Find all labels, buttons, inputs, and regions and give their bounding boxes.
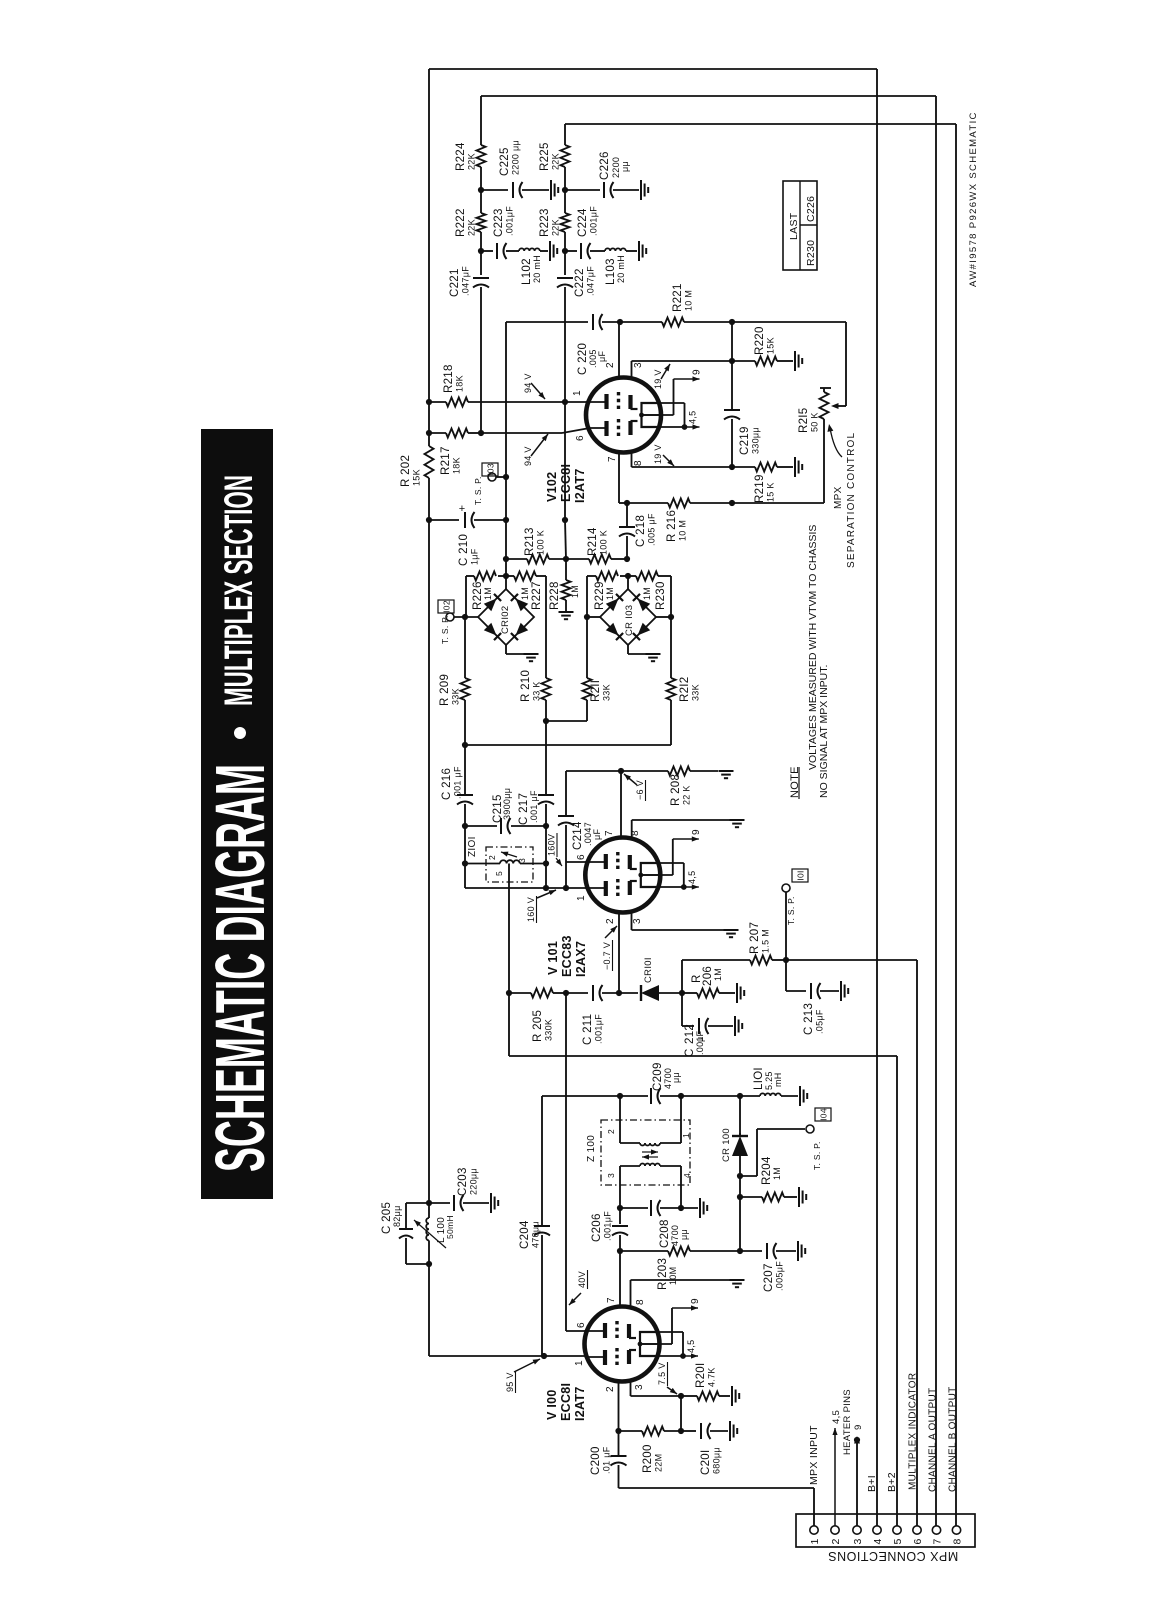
svg-text:NO SIGNAL AT MPX INPUT.: NO SIGNAL AT MPX INPUT. xyxy=(818,665,830,798)
resistor R210 33K xyxy=(545,617,547,678)
wire channel-B bus top xyxy=(565,123,956,125)
transformer Z100 (dash-dot box) xyxy=(601,1120,690,1185)
capacitor C215 3900uu xyxy=(500,818,502,834)
node C211 right / pin2 xyxy=(616,990,622,996)
coil L100 50mH variable xyxy=(428,1203,430,1218)
svg-text:μF: μF xyxy=(597,351,607,362)
svg-text:C20I: C20I xyxy=(700,1450,712,1476)
svg-text:8: 8 xyxy=(635,1299,646,1305)
svg-text:.001 μF: .001 μF xyxy=(453,766,463,799)
svg-text:C204: C204 xyxy=(519,1220,531,1249)
resistor R224 22K xyxy=(480,96,482,145)
svg-text:V I00: V I00 xyxy=(545,1389,559,1420)
node pin1 line / C222 bus xyxy=(562,399,568,405)
test point T.S.P. 101 xyxy=(785,892,787,960)
node junction R223/C222/C224 xyxy=(562,248,568,254)
wire pin2 heater 4,5 xyxy=(834,1428,836,1526)
svg-text:mH: mH xyxy=(773,1072,783,1087)
connector pin 5 xyxy=(893,1526,901,1534)
title bar SCHEMATIC DIAGRAM - MULTIPLEX SECTION xyxy=(201,429,273,1199)
svg-text:V 101: V 101 xyxy=(546,941,560,975)
capacitor C204 470uu xyxy=(541,1096,543,1225)
svg-text:22 K: 22 K xyxy=(682,785,692,805)
svg-text:T. S. P.: T. S. P. xyxy=(786,896,796,925)
capacitor C218 .005uF xyxy=(626,503,628,527)
svg-text:1μF: 1μF xyxy=(470,548,480,565)
node R203 right / C207 xyxy=(737,1248,743,1254)
svg-text:R 209: R 209 xyxy=(439,674,451,706)
svg-text:330K: 330K xyxy=(544,1019,554,1041)
tube V102 ECC81 12AT7 xyxy=(586,378,661,453)
capacitor C207 .005uF xyxy=(740,1250,762,1252)
resistor R213 100K xyxy=(527,555,549,564)
diode CR100 xyxy=(739,1133,741,1136)
svg-text:.005μF: .005μF xyxy=(775,1261,785,1291)
svg-text:R 216: R 216 xyxy=(666,510,678,542)
svg-text:3: 3 xyxy=(634,1384,645,1390)
svg-text:.001 μF: .001 μF xyxy=(529,790,539,823)
svg-text:I0I: I0I xyxy=(796,870,806,880)
svg-text:1M: 1M xyxy=(570,585,580,598)
svg-text:33 K: 33 K xyxy=(532,681,542,701)
svg-text:C206: C206 xyxy=(591,1213,603,1242)
svg-text:50mH: 50mH xyxy=(445,1215,455,1239)
resistor R217 18K xyxy=(446,429,468,438)
svg-text:ZIOI: ZIOI xyxy=(467,836,478,857)
svg-text:15K: 15K xyxy=(766,337,776,354)
svg-text:C 216: C 216 xyxy=(441,768,453,800)
node R219 line xyxy=(729,464,735,470)
svg-text:B+I: B+I xyxy=(866,1475,878,1492)
resistor R214 100K xyxy=(589,555,611,564)
node R214 right / C218 bottom xyxy=(624,556,630,562)
wire left bus vertical xyxy=(428,69,430,402)
svg-text:LAST: LAST xyxy=(788,212,800,240)
svg-text:CHANNEL A OUTPUT: CHANNEL A OUTPUT xyxy=(928,1388,939,1492)
svg-text:10 M: 10 M xyxy=(684,290,694,311)
wire R216 line to R215 bottom xyxy=(732,502,824,504)
node C210 line left xyxy=(426,517,432,523)
svg-text:5: 5 xyxy=(892,1539,904,1545)
node bridge CR103 left tap xyxy=(584,614,590,620)
svg-text:C223: C223 xyxy=(493,208,505,237)
svg-text:7: 7 xyxy=(606,1297,617,1303)
svg-text:MULTIPLEX INDICATOR: MULTIPLEX INDICATOR xyxy=(908,1373,919,1490)
svg-text:CRI02: CRI02 xyxy=(500,606,511,634)
test point T.S.P. 102 xyxy=(446,613,454,621)
node bridge CR103 top xyxy=(625,573,631,579)
capacitor C206 .001uF xyxy=(619,1208,621,1224)
svg-text:33K: 33K xyxy=(691,684,701,701)
wire input top link xyxy=(406,1202,429,1204)
svg-text:C200: C200 xyxy=(590,1446,602,1475)
resistor R201 4.7K xyxy=(681,1395,697,1397)
svg-text:R 205: R 205 xyxy=(532,1010,544,1042)
svg-text:I02: I02 xyxy=(442,600,452,613)
svg-text:1.5 M: 1.5 M xyxy=(761,929,771,953)
node 95V point xyxy=(541,1353,547,1359)
svg-text:9: 9 xyxy=(853,1424,864,1430)
capacitor C221 .047uF xyxy=(480,251,482,275)
svg-text:R20I: R20I xyxy=(695,1363,707,1389)
ground bridge CR103 bottom xyxy=(627,645,629,654)
tube V100 ECC81 12AT7 xyxy=(585,1307,660,1382)
connector pin 4 xyxy=(873,1526,881,1534)
svg-text:.047μF: .047μF xyxy=(461,266,471,296)
wire cathode node down xyxy=(680,1396,682,1431)
svg-text:1: 1 xyxy=(809,1539,821,1545)
capacitor C217 .001uF xyxy=(545,721,547,794)
svg-text:SEPARATION CONTROL: SEPARATION CONTROL xyxy=(846,432,857,568)
coil L103 20mH xyxy=(590,250,605,252)
svg-text:CHANNEL B OUTPUT: CHANNEL B OUTPUT xyxy=(948,1386,959,1492)
node C217 bottom xyxy=(543,823,549,829)
svg-text:μμ: μμ xyxy=(679,1229,689,1240)
capacitor C200 .01uF xyxy=(618,1431,620,1455)
resistor R212 33K xyxy=(670,617,672,678)
svg-text:7: 7 xyxy=(604,830,615,836)
capacitor C205 82uu xyxy=(405,1203,407,1228)
wire plate line to V102 pin 1 xyxy=(429,401,446,403)
bridge rectifier CR102 xyxy=(478,589,534,645)
svg-text:B+2: B+2 xyxy=(886,1472,898,1492)
node bridge CR102 top xyxy=(503,573,509,579)
connector pin 1 xyxy=(810,1526,818,1534)
svg-text:50 K: 50 K xyxy=(810,412,820,432)
svg-text:R 210: R 210 xyxy=(520,670,532,702)
wire C214 feed xyxy=(565,771,567,815)
svg-text:4,5: 4,5 xyxy=(686,1340,696,1353)
svg-text:5: 5 xyxy=(494,871,504,876)
resistor R204 1M xyxy=(740,1196,762,1198)
svg-text:7.5 V: 7.5 V xyxy=(657,1362,667,1385)
resistor R229 1M xyxy=(620,575,628,577)
svg-text:R224: R224 xyxy=(455,142,467,171)
svg-text:.01 μF: .01 μF xyxy=(602,1446,612,1474)
resistor R203 10M xyxy=(668,1247,690,1256)
svg-text:μμ: μμ xyxy=(671,1072,681,1083)
svg-text:1M: 1M xyxy=(642,587,652,600)
capacitor C219 330uu xyxy=(731,322,733,361)
svg-text:C 213: C 213 xyxy=(803,1003,815,1035)
wire channel-A bus top xyxy=(481,95,936,97)
svg-text:2: 2 xyxy=(606,1129,616,1134)
node C209 left xyxy=(617,1093,623,1099)
svg-text:100 K: 100 K xyxy=(536,530,546,555)
svg-text:I2AT7: I2AT7 xyxy=(573,468,587,503)
svg-text:1M: 1M xyxy=(713,968,723,981)
svg-text:220μμ: 220μμ xyxy=(469,1168,479,1195)
svg-text:1: 1 xyxy=(576,895,587,901)
wire V100 pin 2 down xyxy=(618,1382,620,1432)
connector pin 3 xyxy=(853,1526,861,1534)
table LAST R230 C226 xyxy=(783,181,817,270)
svg-text:3: 3 xyxy=(632,918,643,924)
node R205/C211/grid-line junction xyxy=(563,990,569,996)
wire R203 line xyxy=(620,1250,668,1252)
svg-text:CR 100: CR 100 xyxy=(721,1128,732,1162)
wire V102 pin 2 grid xyxy=(618,322,620,378)
svg-text:C203: C203 xyxy=(457,1167,469,1196)
capacitor C225 2200uuF xyxy=(481,189,508,191)
svg-text:8: 8 xyxy=(633,460,644,466)
resistor R206 1M xyxy=(682,992,697,994)
svg-text:.001μF: .001μF xyxy=(594,1014,604,1044)
wire C220 feed vertical xyxy=(505,322,507,576)
capacitor C213 .05uF xyxy=(785,960,787,991)
svg-text:C225: C225 xyxy=(499,147,511,176)
node C216 bottom xyxy=(462,823,468,829)
svg-text:9: 9 xyxy=(690,1298,701,1304)
svg-text:18K: 18K xyxy=(452,457,462,474)
node C208 right / ground xyxy=(678,1205,684,1211)
node Z101 pin2 / C216 chain xyxy=(462,860,468,866)
svg-text:R227: R227 xyxy=(531,581,543,610)
wire CR100 branch xyxy=(739,1096,741,1133)
node R216 right xyxy=(729,500,735,506)
wire V102 pin 8 cathode bottom to R219 line xyxy=(631,451,633,467)
svg-text:15K: 15K xyxy=(412,469,422,486)
node R209 bottom xyxy=(462,742,468,748)
wire V102 pin 7 to R216 line xyxy=(618,451,620,503)
wire B+2 line from R205 node xyxy=(508,993,510,1056)
resistor R225 22K xyxy=(564,124,566,145)
wire V101 pin 8 cathode top to ground xyxy=(631,820,633,838)
svg-text:C 218: C 218 xyxy=(635,515,647,547)
svg-text:6: 6 xyxy=(576,854,587,860)
svg-text:160 V: 160 V xyxy=(526,897,536,922)
node C217 line / plate line xyxy=(543,885,549,891)
resistor R221 10M xyxy=(620,321,662,323)
ground bridge CR102 bottom xyxy=(505,645,507,654)
svg-text:ECC83: ECC83 xyxy=(560,935,574,977)
node R206 junction xyxy=(679,990,685,996)
svg-text:C226: C226 xyxy=(805,196,817,222)
resistor R220 15K xyxy=(732,360,755,362)
wire V100 pin 8 cathode top to ground xyxy=(630,1280,632,1307)
wire C222-bus to R228 xyxy=(564,402,566,520)
wire channel-B bus right vertical to pin 8 xyxy=(955,124,957,1526)
node TSP103 tap xyxy=(503,474,509,480)
wire R204 node down to C207 line xyxy=(739,1197,741,1251)
svg-text:+: + xyxy=(459,503,465,515)
Z100 secondary winding xyxy=(640,1164,660,1167)
svg-text:82μμ: 82μμ xyxy=(392,1205,402,1227)
svg-text:2: 2 xyxy=(487,855,497,860)
svg-text:I04: I04 xyxy=(819,1108,829,1121)
resistor R219 15K xyxy=(732,466,755,468)
node R217 right / C221 feed xyxy=(478,430,484,436)
svg-text:4: 4 xyxy=(872,1539,884,1545)
svg-text:T. S. P.: T. S. P. xyxy=(473,476,483,505)
resistor R222 22K xyxy=(477,213,486,232)
resistor R223 22K xyxy=(561,213,570,232)
svg-text:HEATER PINS: HEATER PINS xyxy=(842,1389,853,1455)
capacitor C211 .001uF xyxy=(592,985,594,1001)
node L101 tap xyxy=(737,1093,743,1099)
svg-text:C222: C222 xyxy=(574,268,586,297)
node R221 right xyxy=(729,319,735,325)
svg-text:.047μF: .047μF xyxy=(586,266,596,296)
connector pin 2 xyxy=(831,1526,839,1534)
svg-text:15 K: 15 K xyxy=(766,482,776,502)
svg-text:.001μF: .001μF xyxy=(603,1211,613,1241)
svg-text:ECC8I: ECC8I xyxy=(559,1383,573,1421)
svg-text:C219: C219 xyxy=(739,426,751,455)
svg-text:18K: 18K xyxy=(455,375,465,392)
svg-text:.005 μF: .005 μF xyxy=(647,513,657,546)
svg-text:MPX INPUT: MPX INPUT xyxy=(808,1425,820,1485)
svg-text:1M: 1M xyxy=(483,587,493,600)
resistor R216 10M xyxy=(627,502,668,504)
svg-text:I2AX7: I2AX7 xyxy=(574,941,588,977)
svg-text:R2II: R2II xyxy=(590,680,602,702)
resistor R208 22K xyxy=(668,767,690,776)
svg-text:R2I2: R2I2 xyxy=(679,677,691,703)
svg-text:I2AT7: I2AT7 xyxy=(573,1386,587,1421)
svg-text:22K: 22K xyxy=(467,219,477,236)
svg-text:Z 100: Z 100 xyxy=(586,1135,597,1162)
wire R221 to R215 wiper feed xyxy=(732,321,846,323)
node C209 right xyxy=(678,1093,684,1099)
svg-text:4,5: 4,5 xyxy=(688,411,698,424)
wire C208 link xyxy=(620,1207,648,1209)
wire V102 pin 3 cathode top to R220 line xyxy=(631,361,633,378)
svg-text:C224: C224 xyxy=(577,208,589,237)
svg-text:.001μF: .001μF xyxy=(589,206,599,236)
heater arrows V102 pins 9 and 4,5 xyxy=(660,402,685,404)
svg-text:9: 9 xyxy=(691,829,702,835)
wire C220 line xyxy=(506,321,588,323)
wire C209 line xyxy=(542,1095,620,1097)
svg-text:ECC8I: ECC8I xyxy=(559,464,573,502)
svg-text:95 V: 95 V xyxy=(505,1372,515,1392)
svg-text:C 211: C 211 xyxy=(582,1014,594,1045)
connector pin 7 xyxy=(932,1526,940,1534)
node pin7 feed xyxy=(618,768,624,774)
wire grid line to V102 pin 6 xyxy=(429,432,446,434)
capacitor C212 .001uF xyxy=(681,993,683,1026)
wire Z101 tap to R205 line xyxy=(508,864,510,994)
capacitor C226 2200uu xyxy=(565,189,600,191)
svg-text:7: 7 xyxy=(607,456,618,462)
wire B+1 bus top xyxy=(429,68,877,70)
svg-text:R225: R225 xyxy=(539,142,551,171)
svg-text:.001μF: .001μF xyxy=(505,206,515,236)
svg-text:R219: R219 xyxy=(754,474,766,503)
svg-text:2: 2 xyxy=(605,362,616,368)
node R220 line xyxy=(729,358,735,364)
svg-text:R217: R217 xyxy=(440,446,452,475)
resistor R228 1M xyxy=(565,559,567,580)
node L100 top xyxy=(426,1200,432,1206)
svg-text:9: 9 xyxy=(692,369,703,375)
node C220/R221/pin2 xyxy=(617,319,623,325)
svg-text:R220: R220 xyxy=(754,326,766,355)
svg-text:.05μF: .05μF xyxy=(815,1009,825,1034)
svg-text:μF: μF xyxy=(695,1031,705,1042)
wire multiplex-indicator bus vertical to pin 6 xyxy=(916,960,918,1526)
svg-text:22M: 22M xyxy=(654,1454,664,1472)
node R213/R214 junction xyxy=(563,556,569,562)
wire B+2 bus vertical to pin 5 xyxy=(896,1056,898,1526)
node R207 right / TSP101 xyxy=(783,957,789,963)
svg-text:8: 8 xyxy=(952,1539,964,1545)
svg-text:100 K: 100 K xyxy=(599,530,609,555)
connector pin 8 xyxy=(952,1526,960,1534)
capacitor C203 220uu to ground xyxy=(429,1202,450,1204)
svg-text:330μμ: 330μμ xyxy=(751,427,761,454)
wire MPX input line xyxy=(619,1487,815,1489)
resistor R205 330K xyxy=(531,989,553,998)
resistor R209 33K xyxy=(461,678,470,700)
capacitor C223 .001uF xyxy=(481,250,493,252)
svg-text:160V: 160V xyxy=(547,834,557,856)
svg-text:1: 1 xyxy=(574,1360,585,1366)
resistor R207 1.5M xyxy=(682,959,750,961)
wire pin3 heater 9 xyxy=(856,1440,858,1526)
svg-text:SCHEMATIC DIAGRAM: SCHEMATIC DIAGRAM xyxy=(201,764,279,1172)
svg-text:4,5: 4,5 xyxy=(687,871,697,884)
wire detector output bus xyxy=(465,744,671,746)
svg-text:MULTIPLEX SECTION: MULTIPLEX SECTION xyxy=(217,475,261,706)
node Z101 pin3 tap xyxy=(543,860,549,866)
diode CR101 xyxy=(619,992,638,994)
node R217 left xyxy=(426,430,432,436)
node C200/R200 top xyxy=(615,1428,621,1434)
node R201 junction xyxy=(678,1393,684,1399)
svg-text:R222: R222 xyxy=(455,208,467,237)
svg-text:C221: C221 xyxy=(449,268,461,297)
coil L101 5.25mH xyxy=(740,1095,760,1097)
resistor R218 18K xyxy=(446,398,468,407)
svg-text:3900μμ: 3900μμ xyxy=(502,788,512,820)
capacitor C222 .047uF xyxy=(564,251,566,275)
svg-text:33K: 33K xyxy=(602,684,612,701)
wire V100 pin 3 cathode xyxy=(630,1382,632,1397)
node junction R225/C226/R223 xyxy=(562,187,568,193)
svg-text:T. S. P.: T. S. P. xyxy=(440,615,450,644)
svg-text:4: 4 xyxy=(682,1173,692,1178)
node junction R222/C221/C223 xyxy=(478,248,484,254)
wire C216 chain down to plate line xyxy=(464,826,466,888)
capacitor C216 .001uF xyxy=(464,745,466,794)
svg-text:1M: 1M xyxy=(772,1167,782,1180)
node junction R224/R222/C225 xyxy=(478,187,484,193)
svg-text:R 207: R 207 xyxy=(749,922,761,954)
resistor R230 1M xyxy=(628,575,636,577)
capacitor C220 .005uF xyxy=(592,314,594,330)
wire R205 line xyxy=(509,992,531,994)
svg-text:CR I03: CR I03 xyxy=(624,605,635,636)
resistor R200 22M xyxy=(619,1430,643,1432)
tube V101 ECC83 12AX7 xyxy=(585,838,660,913)
node bridge CR103 right tap xyxy=(668,614,674,620)
node R210/R211 join xyxy=(543,718,549,724)
svg-text:T. S. P.: T. S. P. xyxy=(812,1141,822,1170)
svg-text:MPX CONNECTIONS: MPX CONNECTIONS xyxy=(828,1549,958,1563)
test point T.S.P. 103 xyxy=(488,473,496,481)
node C205/L100 bottom xyxy=(426,1261,432,1267)
wire CR101 out to R206/R207 xyxy=(681,960,683,993)
svg-text:2: 2 xyxy=(605,918,616,924)
connector pin 6 xyxy=(913,1526,921,1534)
Z100 core arrows xyxy=(642,1151,658,1153)
wire V101 pin 3 cathode to ground xyxy=(631,912,633,930)
test point T.S.P. 104 xyxy=(740,1175,757,1177)
node C210 / TSP103 vertical xyxy=(503,517,509,523)
node R204 top xyxy=(737,1194,743,1200)
